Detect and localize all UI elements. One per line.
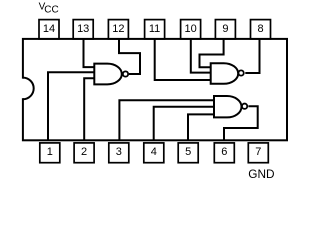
svg-text:CC: CC (44, 4, 58, 15)
nand gate U1A body (94, 64, 122, 85)
pin 10 box (181, 20, 201, 39)
wire pin10 to U1C input 2 (191, 38, 211, 73)
svg-text:7: 7 (255, 146, 261, 158)
pin 1 box (40, 143, 60, 163)
bubble U1B output (242, 104, 247, 109)
pin 7 box (248, 143, 268, 163)
svg-text:9: 9 (222, 23, 228, 35)
pin 4 box (144, 143, 164, 163)
wire pin2 to U1A input 3 (84, 78, 94, 141)
bubble U1C output (238, 70, 243, 75)
VCC power label (39, 1, 59, 15)
pin 2 box (74, 143, 94, 163)
svg-text:GND: GND (248, 167, 274, 181)
nand gate U1B body (214, 96, 242, 117)
index notch arc (23, 78, 34, 100)
pin 8 box (251, 20, 271, 39)
nand gate U1C body (211, 63, 238, 84)
wire pin3 to U1B input 1 (119, 100, 214, 141)
svg-text:10: 10 (184, 23, 196, 35)
pin 5 box (178, 143, 198, 163)
pin 3 box (109, 143, 129, 163)
svg-text:5: 5 (185, 146, 191, 158)
pin 13 box (73, 20, 93, 39)
wire pin11 to U1C input 3 (155, 38, 211, 80)
wire pin13 to U1A input 1 (84, 38, 95, 67)
svg-text:11: 11 (149, 23, 160, 35)
wire pin1 to U1A input 2 (48, 72, 94, 141)
wire pin9 to U1C input 1 (200, 38, 224, 67)
wire pin4 to U1B input 2 (154, 107, 214, 141)
svg-text:2: 2 (81, 146, 87, 158)
wire U1A output to pin12 (119, 38, 140, 74)
pin 9 box (215, 20, 235, 39)
svg-text:14: 14 (43, 23, 55, 35)
pin 11 box (145, 20, 165, 39)
svg-text:6: 6 (221, 146, 227, 158)
svg-text:8: 8 (257, 23, 263, 35)
pin 14 box (39, 20, 59, 39)
svg-text:4: 4 (151, 146, 157, 158)
svg-text:13: 13 (77, 23, 89, 35)
svg-text:12: 12 (112, 23, 124, 35)
wire pin5 to U1B input 3 (188, 114, 214, 141)
index notch erase (13, 79, 33, 99)
pin 12 box (108, 20, 128, 39)
wire U1B output to pin6 (224, 106, 258, 141)
pin 6 box (214, 143, 234, 163)
svg-text:3: 3 (116, 146, 122, 158)
IC body DIP-14 outline (23, 39, 287, 140)
svg-text:1: 1 (47, 146, 53, 158)
wire U1C output to pin8 (245, 38, 259, 73)
bubble U1A output (123, 71, 128, 76)
